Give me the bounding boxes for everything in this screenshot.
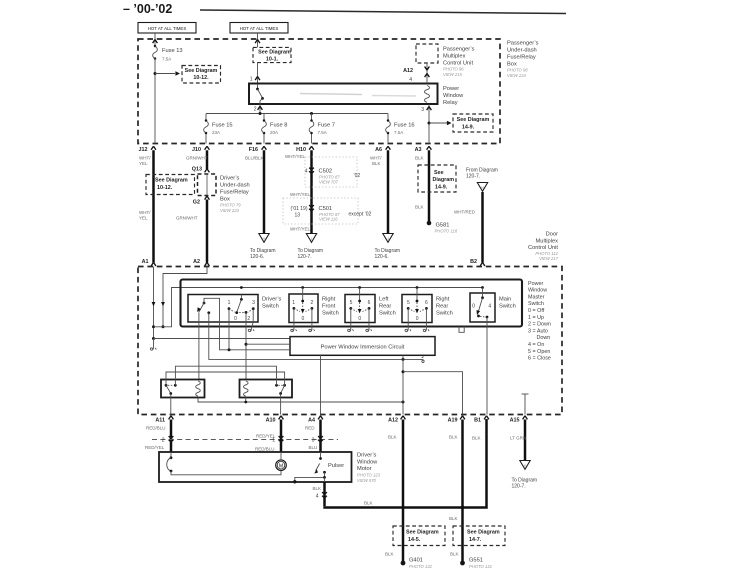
pulser switch [320,452,322,458]
svg-text:BLK: BLK [388,435,397,440]
svg-text:Rear: Rear [436,304,448,310]
to diagram 120-6 triangle (A6) [383,234,393,243]
svg-text:4: 4 [409,77,412,83]
driver's switch up/down contact set [240,295,242,300]
svg-text:5 = Open: 5 = Open [528,349,550,355]
ground run to B1 [323,419,486,508]
svg-text:A15: A15 [510,418,520,424]
svg-text:120-7.: 120-7. [512,484,526,490]
wire relay2 to A10 [280,394,282,415]
ground G581 [427,221,432,226]
svg-text:1 = Up: 1 = Up [528,315,544,321]
svg-text:6: 6 [425,300,428,306]
see diagram 10-12 box (middle) [146,175,195,195]
fuse 7 branch [311,114,313,121]
see diagram 14-9 box (middle) [418,165,456,192]
driver's under-dash fuse/relay box (dashed) [198,174,217,196]
svg-text:Driver’s: Driver’s [262,297,282,303]
svg-text:Main: Main [499,297,511,303]
svg-text:PHOTO 131: PHOTO 131 [469,564,492,569]
svg-text:See Diagram: See Diagram [457,117,490,123]
svg-text:YEL: YEL [139,215,148,220]
svg-text:A1: A1 [142,259,149,265]
connector at box entry [255,40,260,44]
svg-text:H: H [263,236,266,241]
motor ground wire BLK pin 4 [323,482,326,506]
svg-text:Front: Front [322,304,336,310]
door multiplex control unit label [528,232,559,262]
svg-text:Door: Door [546,232,558,238]
wire A1 lower hook [153,339,155,348]
wire main switch to B1 [486,317,488,415]
svg-text:HOT AT ALL TIMES: HOT AT ALL TIMES [240,26,279,31]
wire A4 RED [319,420,322,453]
svg-text:Fuse/Relay: Fuse/Relay [220,190,249,196]
svg-text:– ’00-’02: – ’00-’02 [123,2,172,16]
wire A1 to immersion circuit [154,338,291,340]
svg-text:A12: A12 [388,418,398,424]
svg-text:Under-dash: Under-dash [507,48,537,54]
svg-text:PHOTO 79: PHOTO 79 [220,203,241,208]
svg-text:1: 1 [228,300,231,306]
svg-text:120-6.: 120-6. [375,254,389,260]
pulser to ground exit [295,472,325,482]
passenger's multiplex control unit box [416,44,438,63]
svg-text:Driver’s: Driver’s [220,176,240,182]
svg-text:RED/BLU: RED/BLU [146,426,166,431]
wire A19 BLK to G551 [461,420,464,563]
motor M [276,460,287,471]
svg-text:Right: Right [322,297,336,303]
see diagram 10-1 box [253,47,291,62]
wire A1 into unit [153,267,155,339]
svg-text:0: 0 [234,316,237,322]
svg-text:0: 0 [472,304,475,310]
wire A10 RED/YEL [280,420,283,453]
svg-text:Fuse 16: Fuse 16 [394,123,415,129]
svg-text:4: 4 [316,494,319,500]
link to supply rail [154,288,483,327]
svg-text:3 = Auto: 3 = Auto [528,328,548,334]
svg-text:A19: A19 [448,418,458,424]
svg-text:WHT/YEL: WHT/YEL [290,227,310,232]
svg-text:Fuse 8: Fuse 8 [270,123,287,129]
svg-text:WHT/YEL: WHT/YEL [285,154,305,159]
svg-text:WHT/: WHT/ [139,210,151,215]
svg-text:PHOTO 123: PHOTO 123 [357,472,381,477]
svg-text:20A: 20A [270,130,278,135]
svg-text:WHT/: WHT/ [139,156,151,161]
wire fuse13 to J12 [154,59,156,144]
svg-text:0 = Off: 0 = Off [528,308,545,314]
svg-text:A2: A2 [193,259,200,265]
wire F16 BLU/BLK [263,150,266,233]
relay switch [257,84,259,89]
cross link relay1-right to relay2-left [175,366,276,385]
svg-text:RED: RED [305,426,315,431]
svg-text:Q13: Q13 [192,167,202,173]
wire immersion to A4 [320,355,322,414]
svg-text:GRN/WHT: GRN/WHT [176,215,198,220]
svg-text:6 = Close: 6 = Close [528,356,551,362]
passenger's under-dash fuse/relay box outline [138,39,500,144]
connector at box entry [153,40,158,44]
svg-text:BLU: BLU [309,445,318,450]
relay coil [425,86,430,103]
svg-text:2: 2 [254,107,257,113]
svg-text:14-9.: 14-9. [462,125,475,131]
svg-text:A3: A3 [415,147,422,153]
cross link relay1-left to relay2-right [166,372,285,385]
svg-text:BLK: BLK [449,435,458,440]
svg-text:2: 2 [247,316,250,322]
dotted variant box except '02 [283,198,358,224]
to diagram 120-7 triangle (H10) [306,234,316,243]
svg-text:10-12.: 10-12. [157,185,173,191]
wire A2 jog into unit [163,267,207,327]
svg-text:Under-dash: Under-dash [220,183,250,189]
svg-text:M: M [279,463,283,469]
wire to A19 [403,372,463,415]
from diagram triangle [477,183,487,192]
circuit breaker [170,452,172,458]
svg-text:I: I [311,236,312,241]
power window master switch legend [528,281,551,362]
wire J10 to Q13 [206,150,209,169]
svg-text:Switch: Switch [379,311,396,317]
svg-text:3: 3 [312,438,315,444]
arrow to see diagram 14-9 (top) [429,122,447,124]
svg-text:BLK: BLK [415,156,424,161]
see diagram 14-9 box (top) [453,114,493,132]
svg-text:Power Window Immersion Circuit: Power Window Immersion Circuit [321,345,405,351]
svg-text:PHOTO 98: PHOTO 98 [507,68,528,73]
svg-text:Power: Power [528,281,543,287]
to diagram 120-7 triangle (A15) [520,461,530,470]
svg-text:J: J [387,236,389,241]
svg-text:Relay: Relay [443,100,458,106]
svg-text:BLK: BLK [364,501,373,506]
hooks below left rear switch [348,329,354,332]
svg-text:A6: A6 [375,147,382,153]
svg-text:BLK: BLK [372,161,381,166]
relay 1 contacts [165,384,168,387]
svg-text:6: 6 [368,300,371,306]
svg-text:10-1.: 10-1. [266,56,279,62]
svg-text:(’01 19): (’01 19) [291,206,308,212]
wire A3 BLK to G581 [428,150,431,222]
svg-text:Fuse 7: Fuse 7 [318,123,335,129]
driver's switch hook (auto down) [248,329,254,332]
svg-text:2: 2 [311,300,314,306]
node fuse13/see-diagram tap [154,72,157,75]
svg-text:Window: Window [357,459,378,465]
svg-text:Rear: Rear [379,304,391,310]
HOT AT ALL TIMES box 2 [230,23,288,34]
svg-text:Switch: Switch [436,311,453,317]
svg-text:120-6.: 120-6. [250,254,264,260]
wire A12 BLK to G401 [402,420,405,563]
svg-text:0: 0 [416,316,419,322]
svg-text:Window: Window [528,288,547,294]
svg-text:7.5A: 7.5A [394,130,403,135]
svg-text:A4: A4 [308,418,315,424]
svg-text:Driver’s: Driver’s [357,453,377,459]
wire multiplex to relay pin 4, connector A12 [426,63,428,84]
svg-text:A12: A12 [403,68,413,74]
svg-text:PHOTO 118: PHOTO 118 [435,229,458,234]
to diagram 120-6 triangle (F16) [259,234,269,243]
svg-text:G551: G551 [469,558,483,564]
svg-text:H10: H10 [296,147,306,153]
svg-text:B2: B2 [470,259,477,265]
svg-text:4: 4 [488,304,491,310]
fuse 16 branch [387,114,389,121]
arrow to see diagram 10-12 (top) [155,73,175,75]
svg-text:LT GRN: LT GRN [510,436,526,441]
left rear switch box [345,295,375,323]
see diagram 14-7 box [453,526,505,546]
svg-text:5: 5 [350,300,353,306]
svg-text:F16: F16 [249,147,258,153]
driver's switch auto-down contact set [203,302,206,305]
wire hot2 down [257,33,259,47]
wire A6 WHT/BLK [387,150,390,233]
tab notch below master switch box [459,327,464,333]
title rule line [200,10,566,14]
svg-text:Window: Window [443,93,464,99]
HOT AT ALL TIMES box 1 [138,23,196,34]
right rear switch box [402,295,432,323]
wire J12 to A1 [152,150,155,262]
svg-text:7.5A: 7.5A [318,130,327,135]
fuse bus [206,113,388,115]
svg-text:BLU/BLK: BLU/BLK [245,156,264,161]
svg-text:Fuse/Relay: Fuse/Relay [507,55,536,61]
driver's switch box [188,295,258,323]
svg-text:Left: Left [379,297,389,303]
window relay box 2 [240,380,293,398]
svg-text:VIEW 223: VIEW 223 [220,208,240,213]
svg-text:23A: 23A [212,130,220,135]
svg-text:K: K [524,463,527,468]
svg-text:Multiplex: Multiplex [536,238,559,244]
svg-text:N: N [481,185,484,190]
ground G551 [460,561,465,566]
hooks below right rear switch [405,329,411,332]
relay 2 contacts [275,384,278,387]
svg-text:Motor: Motor [357,466,372,472]
svg-text:BLK: BLK [385,552,394,557]
svg-text:Power: Power [443,86,459,92]
svg-text:BLK: BLK [415,205,424,210]
svg-text:4 = On: 4 = On [528,342,544,348]
svg-text:See Diagram: See Diagram [258,49,291,55]
wire A15 LT GRN [524,420,527,461]
see diagram 10-12 box (top) [182,66,221,84]
fuse 13 [153,45,158,60]
svg-text:3: 3 [421,107,424,113]
passenger's under-dash box label [507,41,539,78]
wire hot1 to fuse 13 [154,33,156,45]
svg-text:B1: B1 [474,418,481,424]
svg-text:VIEW 215: VIEW 215 [443,72,463,77]
svg-text:G401: G401 [409,558,423,564]
power window immersion circuit box [290,337,435,356]
svg-text:VIEW 707: VIEW 707 [319,179,339,184]
svg-text:A10: A10 [266,418,276,424]
svg-text:Multiplex: Multiplex [443,54,466,60]
svg-text:4: 4 [305,169,308,175]
wire relay1 to A11 [170,394,172,415]
wire WHT/RED to B2 [481,192,484,263]
junction with A19 wire [461,506,465,510]
svg-text:See Diagram: See Diagram [467,530,500,536]
svg-text:5: 5 [407,300,410,306]
svg-text:’02: ’02 [354,173,361,179]
svg-text:RED/BLU: RED/BLU [255,447,275,452]
right front switch contacts [302,288,304,302]
svg-text:7.5A: 7.5A [162,57,171,62]
left rear switch contacts [359,288,361,302]
relay 1 coil [196,381,201,396]
svg-text:1: 1 [272,438,275,444]
svg-text:PHOTO 132: PHOTO 132 [409,564,433,569]
svg-text:Passenger’s: Passenger’s [507,41,539,47]
main switch box [470,293,495,322]
svg-text:WHT/YEL: WHT/YEL [290,192,310,197]
main switch contacts [482,288,484,298]
svg-text:VIEW 116: VIEW 116 [319,217,338,222]
svg-text:13: 13 [294,213,300,219]
svg-text:0: 0 [358,316,361,322]
svg-text:120-7.: 120-7. [466,174,480,180]
svg-text:10-12.: 10-12. [193,75,209,81]
svg-text:Master: Master [528,294,545,300]
power window master switch outer box [181,280,523,327]
wire H10 WHT/YEL [310,150,313,233]
right front switch box [289,294,318,323]
svg-text:14-9.: 14-9. [435,185,448,191]
svg-text:1: 1 [292,300,295,306]
svg-text:BLK: BLK [472,436,481,441]
svg-text:Switch: Switch [322,311,339,317]
faint interior marks [300,94,362,95]
svg-text:Fuse 15: Fuse 15 [212,123,233,129]
svg-text:HOT AT ALL TIMES: HOT AT ALL TIMES [148,26,187,31]
svg-text:Switch: Switch [262,304,279,310]
svg-text:YEL: YEL [139,161,148,166]
svg-text:Switch: Switch [499,304,516,310]
door connector dashed line [152,439,338,441]
svg-text:VIEW 217: VIEW 217 [539,256,559,261]
svg-text:3: 3 [252,300,255,306]
driver's window motor box [159,452,352,482]
relay coil grounds to A12 [198,398,403,403]
svg-text:2: 2 [162,438,165,444]
connector G2 [205,196,210,200]
node relay pin3 / see 14-9 tap [428,122,431,125]
svg-text:Passenger’s: Passenger’s [443,47,475,53]
svg-text:Right: Right [436,297,450,303]
svg-text:A11: A11 [155,418,165,424]
wire to relay pin 1 [257,63,259,84]
svg-text:VIEW 224: VIEW 224 [507,73,527,78]
svg-text:RED/YEL: RED/YEL [145,445,165,450]
fuse 15 branch [205,114,207,121]
driver's switch output wires [198,322,200,380]
svg-text:WHT/RED: WHT/RED [454,210,476,215]
power window relay box [249,84,438,105]
svg-text:Switch: Switch [528,301,544,307]
fuse 8 branch [263,114,265,121]
svg-text:BLK: BLK [312,486,321,491]
svg-text:14-5.: 14-5. [408,537,421,543]
wire immersion to A12 [402,359,404,414]
svg-text:0: 0 [302,316,305,322]
svg-text:2 = Down: 2 = Down [528,322,551,328]
svg-text:Pulser: Pulser [328,463,344,469]
svg-text:120-7.: 120-7. [298,254,312,260]
svg-text:J12: J12 [139,147,148,153]
svg-text:1: 1 [250,77,253,83]
svg-text:WHT/: WHT/ [370,156,382,161]
dotted variant box '02 [305,157,357,187]
svg-text:GRN/WHT: GRN/WHT [186,156,208,161]
svg-text:PHOTO 96: PHOTO 96 [443,67,464,72]
svg-text:J10: J10 [192,147,201,153]
svg-text:Down: Down [537,335,551,341]
svg-text:See Diagram: See Diagram [155,178,188,184]
svg-text:BLK: BLK [450,552,459,557]
ground G401 [401,561,406,566]
svg-text:Diagram: Diagram [433,177,455,183]
svg-text:BLK: BLK [449,516,458,521]
svg-text:See: See [434,170,444,176]
svg-text:VIEW 570: VIEW 570 [357,478,377,483]
see diagram 14-5 box [393,526,445,546]
window relay box 1 [161,380,205,398]
wire A11 RED/BLU [170,420,173,453]
A15 stub [522,393,529,395]
relay 2 coil [244,381,249,396]
svg-text:14-7.: 14-7. [469,537,482,543]
svg-text:See Diagram: See Diagram [406,530,439,536]
svg-text:See Diagram: See Diagram [185,68,218,74]
svg-text:Fuse 13: Fuse 13 [162,48,183,54]
hooks below right front switch [291,329,297,332]
wire G2 to A2 [206,200,209,263]
svg-text:except ’02: except ’02 [349,212,372,218]
svg-text:G2: G2 [193,200,200,206]
rail taps [240,286,243,289]
right rear switch contacts [416,288,418,302]
